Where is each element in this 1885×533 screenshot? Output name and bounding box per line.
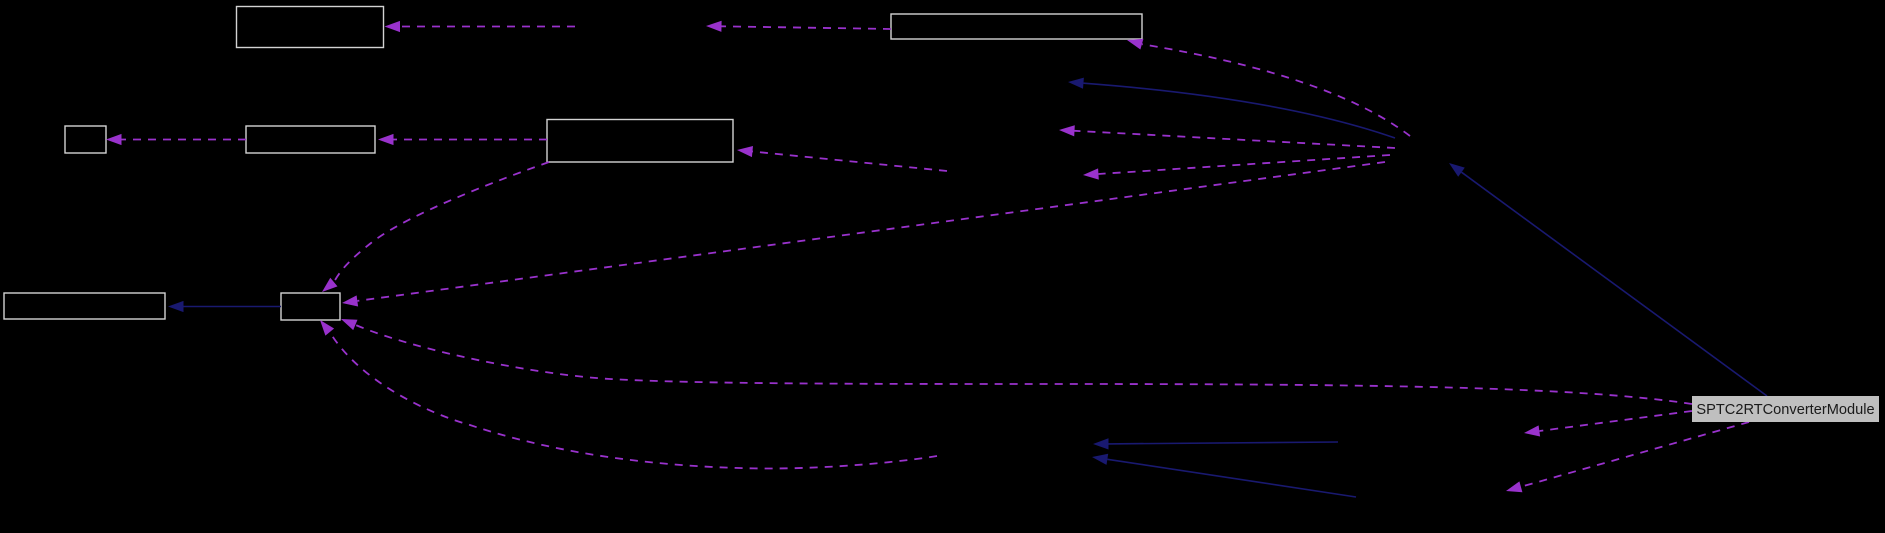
edge E4: fan node -> hidden (blue) bbox=[1084, 83, 1396, 138]
edge E16: hidden -> hidden (blue) bbox=[1107, 459, 1356, 497]
node box7 (small hub) bbox=[281, 293, 340, 320]
node box3 (small left) bbox=[65, 126, 106, 153]
edge E6: fan node -> hidden bbox=[1099, 155, 1391, 174]
node box2 (top-middle) bbox=[891, 14, 1142, 39]
edge E7: fan node -> box7 right bbox=[357, 162, 1385, 301]
svg-text:SPTC2RTConverterModule: SPTC2RTConverterModule bbox=[1696, 402, 1874, 418]
edge E17: box7 -> box6 (blue) bbox=[184, 306, 282, 308]
edge E1: hidden node -> box1 bbox=[400, 26, 575, 28]
edge E3: fan node -> box2 corner bbox=[1142, 44, 1410, 136]
node box4 bbox=[246, 126, 375, 153]
edge E19: box5 -> box4 bbox=[394, 139, 548, 141]
node box6 (bottom-left) bbox=[4, 293, 165, 319]
edge E13: SPTC2RTConverterModule -> hidden bbox=[1521, 422, 1749, 487]
main node SPTC2RTConverterModule bbox=[1692, 396, 1879, 422]
edge E11: hidden node -> box7 bottom bbox=[330, 332, 937, 468]
edge E5: fan node -> hidden bbox=[1075, 131, 1396, 148]
edge E2: box2 -> hidden node bbox=[722, 26, 892, 29]
edge E15: hidden -> hidden (blue) bbox=[1109, 442, 1339, 444]
edge E14: SPTC2RTConverterModule -> fan node (blue) bbox=[1462, 172, 1768, 396]
edge E12: SPTC2RTConverterModule -> hidden bbox=[1539, 411, 1692, 431]
edge E18: box4 -> box3 bbox=[122, 139, 247, 141]
node box5 (2-line) bbox=[547, 120, 733, 163]
edge E10: SPTC2RTConverterModule -> box7 corner bbox=[355, 325, 1692, 404]
node box1 (top-left, 2-line) bbox=[237, 7, 384, 48]
edge E9: box5 -> box7 top bbox=[334, 162, 549, 282]
edge E8: hidden node -> box5 bbox=[752, 152, 947, 172]
